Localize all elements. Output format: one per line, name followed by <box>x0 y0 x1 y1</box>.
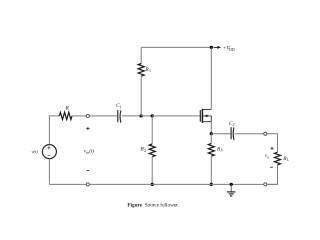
wire: top rail <box>141 46 211 48</box>
wire: RS lower lead <box>210 156 212 184</box>
wire: R1 upper lead <box>140 47 142 63</box>
wire: bottom rail right segment <box>267 183 278 185</box>
svg-text:2: 2 <box>144 149 146 153</box>
wire: RL bottom to output bottom terminal <box>267 165 278 185</box>
wire: bottom rail left segment <box>49 183 86 185</box>
wire: source bottom lead <box>48 159 50 185</box>
wire: source top lead up and right to resistor R <box>49 116 59 145</box>
wire: source lead down to node <box>210 122 212 134</box>
terminal: input bottom (open circle) <box>86 183 89 186</box>
node: ground junction <box>230 183 233 186</box>
transistor M1: channel bar <box>201 109 203 123</box>
svg-text:Figure Source follower.: Figure Source follower. <box>127 201 178 208</box>
wire: body to source connection <box>210 116 212 122</box>
svg-text:(t): (t) <box>89 150 94 155</box>
transistor M1: drain stub <box>202 108 211 110</box>
wire: bottom rail middle segment <box>89 183 263 185</box>
node: RS bottom junction <box>210 183 213 186</box>
terminal: output bottom (open circle) <box>264 183 267 186</box>
wire: R2 lower lead <box>151 157 153 185</box>
capacitor C2 <box>230 127 232 139</box>
svg-text:S: S <box>221 149 223 153</box>
wire: terminal to capacitor C1 <box>89 115 117 117</box>
wire: RS upper lead <box>210 134 212 144</box>
voltage source v(t) <box>42 145 56 159</box>
svg-text:v(t): v(t) <box>32 149 39 154</box>
resistor RL <box>275 152 281 165</box>
wire: C1 to gate node <box>122 115 141 117</box>
supply +VDD arrow <box>214 46 218 48</box>
label vo with polarity <box>270 147 274 167</box>
ground <box>230 184 232 192</box>
terminal: output top (open circle) <box>264 132 267 135</box>
wire: source node to C2 <box>211 133 230 135</box>
wire: R1 lower lead <box>140 76 142 116</box>
node: R2 bottom junction <box>151 183 154 186</box>
node: source node junction <box>210 132 213 135</box>
terminal: input top (open circle) <box>86 114 89 117</box>
svg-text:1: 1 <box>149 69 151 73</box>
node: junction of R2 branch <box>151 114 154 117</box>
node: junction of R1 branch and gate wire <box>140 114 143 117</box>
svg-text:2: 2 <box>233 123 235 127</box>
wire: terminal to RL corner <box>267 134 278 152</box>
wire: node to MOSFET gate <box>152 115 200 117</box>
wire: gate node to R2 node <box>141 115 152 117</box>
svg-text:o: o <box>267 155 269 159</box>
svg-text:DD: DD <box>229 48 235 52</box>
wire: drain lead to VDD rail <box>210 47 212 109</box>
resistor R2 <box>149 144 155 157</box>
wire: R to input terminal <box>72 115 86 117</box>
label vin(t) with polarity <box>86 127 89 171</box>
wire: R2 upper lead <box>151 116 153 144</box>
resistor RS <box>208 144 214 157</box>
svg-text:1: 1 <box>120 105 122 109</box>
transistor M1: body stub with arrow <box>202 115 211 117</box>
transistor M1 (NMOS): gate bar <box>199 110 201 122</box>
wire: C2 to output terminal <box>235 133 264 135</box>
resistor R1 <box>138 64 144 77</box>
svg-text:L: L <box>286 158 289 162</box>
node: VDD junction <box>210 46 213 49</box>
svg-text:R: R <box>64 105 69 111</box>
transistor M1: source stub <box>202 121 211 123</box>
capacitor C1 <box>117 110 119 122</box>
resistor R <box>59 112 72 119</box>
